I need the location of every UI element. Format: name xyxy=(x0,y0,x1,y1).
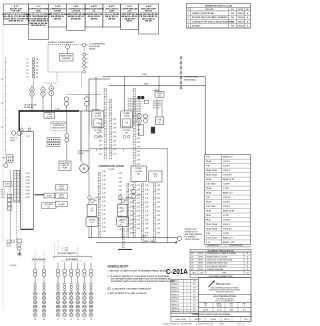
compressor frame boundary xyxy=(89,148,168,150)
svg-text:ISSUED FOR APPROVAL: ISSUED FOR APPROVAL xyxy=(192,12,215,15)
gauge pair A-GTS xyxy=(132,190,136,194)
svg-text:2-1F: 2-1F xyxy=(137,164,140,166)
wire chain xyxy=(121,228,123,248)
svg-text:AS BUILT: AS BUILT xyxy=(192,25,201,28)
svg-text:2-1F: 2-1F xyxy=(102,201,105,203)
svg-text:T-48, T-480: T-48, T-480 xyxy=(206,183,215,186)
svg-text:M1: M1 xyxy=(34,319,36,321)
svg-text:F2: F2 xyxy=(64,319,66,321)
svg-text:2-1F: 2-1F xyxy=(119,229,122,231)
header reference box A-4T xyxy=(121,4,139,30)
cabinet bushing 2 xyxy=(28,128,31,131)
svg-text:LVL: LVL xyxy=(95,200,98,202)
svg-text:AND AB WD SL: AND AB WD SL xyxy=(9,20,24,23)
feeder column F1 xyxy=(56,262,60,320)
svg-text:3: 3 xyxy=(188,21,189,23)
svg-text:SW HI: SW HI xyxy=(59,188,64,190)
drop to starter 2 xyxy=(124,76,126,111)
svg-text:AUX: AUX xyxy=(127,10,132,13)
svg-text:1/2": 1/2" xyxy=(191,263,194,265)
svg-text:T-45, T-450: T-45, T-450 xyxy=(206,205,215,208)
svg-text:BOARD: BOARD xyxy=(78,152,85,155)
damper position transmitter ZT xyxy=(66,45,70,49)
contactor filled block xyxy=(151,127,155,133)
svg-text:2-1F: 2-1F xyxy=(145,194,148,196)
svg-text:1-C/W: 1-C/W xyxy=(25,176,30,178)
svg-text:#TT: #TT xyxy=(193,284,196,286)
meter pair 1 xyxy=(137,114,141,118)
svg-text:2-1F: 2-1F xyxy=(113,123,116,125)
header reference box 1-4TD xyxy=(67,4,85,31)
svg-text:C-201A: C-201A xyxy=(166,267,188,276)
feeder column M2 xyxy=(42,262,46,320)
svg-text:LEVEL: LEVEL xyxy=(59,195,64,197)
bus riser xyxy=(18,111,20,131)
svg-text:2-1F: 2-1F xyxy=(99,128,102,130)
wire chain xyxy=(110,99,112,160)
damper drive linkage box xyxy=(60,54,74,62)
feeder T-840 xyxy=(103,75,206,77)
terminal block on left wire xyxy=(7,155,14,163)
svg-text:TB-40, TB-41: TB-40, TB-41 xyxy=(206,169,217,172)
terminal block TB-1 xyxy=(47,138,60,142)
svg-text:2-1F: 2-1F xyxy=(119,177,122,179)
svg-text:F6: F6 xyxy=(90,319,92,321)
svg-text:T-840: T-840 xyxy=(142,73,147,76)
wire chain xyxy=(142,183,144,243)
svg-text:P-101, P-102: P-101, P-102 xyxy=(206,237,217,239)
svg-text:25-1F HTR: 25-1F HTR xyxy=(153,101,162,103)
svg-text:1 OF 1: 1 OF 1 xyxy=(244,319,249,321)
svg-text:CMPRSR GRND: CMPRSR GRND xyxy=(184,77,198,79)
header reference box A-10 xyxy=(3,4,28,25)
wire chain xyxy=(141,183,143,243)
wiring chain below ladder xyxy=(16,202,18,248)
feeder column F4 xyxy=(76,262,80,320)
svg-text:2-1F: 2-1F xyxy=(137,211,140,213)
wire chain xyxy=(132,88,134,238)
svg-text:2-1F: 2-1F xyxy=(137,185,140,187)
svg-text:LOW OIL LVL & VIBR SHUTDOWN: LOW OIL LVL & VIBR SHUTDOWN xyxy=(207,259,234,261)
svg-text:1-C/W: 1-C/W xyxy=(25,197,30,199)
svg-text:ROD INSTALL: ROD INSTALL xyxy=(184,78,197,81)
svg-text:AB WD: AB WD xyxy=(108,17,115,20)
meter pair 2 xyxy=(143,114,147,118)
svg-text:BASE 1-8 TR: BASE 1-8 TR xyxy=(223,178,235,181)
terminal list sub-table xyxy=(171,279,198,313)
customer band xyxy=(198,295,251,303)
svg-text:2-1F: 2-1F xyxy=(119,212,122,214)
svg-text:2-1F: 2-1F xyxy=(99,119,102,121)
svg-text:2/25/14: 2/25/14 xyxy=(237,16,244,19)
short heavy segment xyxy=(118,248,132,250)
svg-text:1-C/W: 1-C/W xyxy=(25,193,30,195)
current transformer circles LT-120 xyxy=(11,131,15,135)
svg-text:LVL: LVL xyxy=(125,200,128,202)
svg-text:1-C/W: 1-C/W xyxy=(25,180,30,182)
svg-text:RE-MOULD # DAMP AMBIENT: RE-MOULD # DAMP AMBIENT xyxy=(48,41,74,44)
svg-text:2-1F: 2-1F xyxy=(119,186,122,188)
conduit and wire schedule table xyxy=(205,155,251,245)
svg-text:30 KVA: 30 KVA xyxy=(46,115,53,118)
svg-text:UNIT 101: UNIT 101 xyxy=(194,319,201,321)
aux drive lube oil pump box xyxy=(59,161,71,170)
svg-text:#TT: #TT xyxy=(193,311,196,313)
mcc bracket xyxy=(54,255,92,257)
svg-text:1/2": 1/2" xyxy=(191,256,194,258)
svg-text:AB WD: AB WD xyxy=(145,20,152,23)
svg-text:2-1F: 2-1F xyxy=(113,128,116,130)
svg-text:AND: AND xyxy=(36,10,41,13)
svg-text:Q#1M: Q#1M xyxy=(10,140,15,142)
svg-text:2-1F: 2-1F xyxy=(99,141,102,143)
svg-text:LEVEL: LEVEL xyxy=(59,186,64,188)
svg-text:2-1F: 2-1F xyxy=(102,218,105,220)
enclosure heater box xyxy=(155,117,163,125)
svg-text:#TT: #TT xyxy=(193,287,196,289)
svg-text:2-1F: 2-1F xyxy=(137,228,140,230)
svg-text:M2: M2 xyxy=(43,319,45,321)
tank 2 level gauges xyxy=(118,196,122,200)
svg-text:25-2F HTR: 25-2F HTR xyxy=(153,105,162,107)
contact on enclosure bottom edge xyxy=(83,70,86,73)
svg-text:2-1F: 2-1F xyxy=(119,216,122,218)
svg-text:#TT: #TT xyxy=(193,294,196,296)
svg-text:SEDAN: SEDAN xyxy=(89,47,96,50)
svg-text:2-1F: 2-1F xyxy=(102,188,105,190)
svg-text:LINKAGE: LINKAGE xyxy=(62,57,71,60)
svg-text:DUPL: DUPL xyxy=(199,253,203,255)
svg-text:DUPL: DUPL xyxy=(199,256,203,258)
svg-text:CMPTR PLCING: CMPTR PLCING xyxy=(185,229,198,231)
grid connection node xyxy=(177,236,181,240)
svg-text:7/25/14: 7/25/14 xyxy=(237,25,244,28)
wire chain xyxy=(123,228,125,248)
dashed control wiring from damper xyxy=(56,72,58,83)
cabinet internal bus xyxy=(21,133,23,228)
svg-text:2-1F: 2-1F xyxy=(99,136,102,138)
feeder column M1 xyxy=(33,262,37,320)
svg-text:2-1F: 2-1F xyxy=(102,210,105,212)
svg-text:RECORD: RECORD xyxy=(205,9,214,11)
svg-text:2-1F: 2-1F xyxy=(157,189,160,191)
svg-text:# M LI R: # M LI R xyxy=(223,197,231,199)
svg-text:#TT: #TT xyxy=(193,281,196,283)
tank 1 pump starter xyxy=(86,217,98,226)
feeder column F3 xyxy=(69,262,73,320)
svg-text:2-1F: 2-1F xyxy=(137,198,140,200)
svg-text:2-1F: 2-1F xyxy=(99,153,102,155)
svg-text:# A OPT: # A OPT xyxy=(223,201,231,204)
svg-text:2-1F: 2-1F xyxy=(145,185,148,187)
svg-text:10: 10 xyxy=(186,311,188,313)
svg-text:#TT: #TT xyxy=(193,301,196,303)
svg-text:2-1F: 2-1F xyxy=(157,215,160,217)
svg-text:OIL LEVEL: OIL LEVEL xyxy=(122,130,130,132)
tank 1 control box xyxy=(87,205,97,217)
header reference box A-4TD xyxy=(85,4,103,27)
company block outline xyxy=(198,278,251,322)
instrument bubble below TB xyxy=(4,164,8,168)
svg-text:TB-44: TB-44 xyxy=(206,201,211,204)
svg-text:2-1F: 2-1F xyxy=(119,225,122,227)
svg-text:25-1F 2#12,1#12G: 25-1F 2#12,1#12G xyxy=(128,103,142,105)
svg-text:DRAWN REVISION LOG (A): DRAWN REVISION LOG (A) xyxy=(205,4,232,7)
bus junction box T-846 xyxy=(92,109,99,113)
svg-text:# A OPT: # A OPT xyxy=(223,218,231,221)
battery ground plate box xyxy=(42,203,56,209)
svg-text:BASE 3-1 C: BASE 3-1 C xyxy=(223,236,234,239)
svg-text:1/2": 1/2" xyxy=(191,259,194,261)
svg-text:PNL: PNL xyxy=(137,173,140,175)
svg-text:2-1F: 2-1F xyxy=(113,145,116,147)
tank 1 feeder stub xyxy=(91,226,93,237)
svg-text:DATE: DATE xyxy=(238,8,244,11)
svg-text:1/2": 1/2" xyxy=(191,253,194,255)
svg-text:2-1F: 2-1F xyxy=(137,155,140,157)
field wire ticks xyxy=(5,61,7,63)
svg-text:2-1F: 2-1F xyxy=(99,149,102,151)
description header row xyxy=(205,246,251,248)
panel C-120 cabinet xyxy=(21,132,34,230)
feeder column F6 xyxy=(89,262,93,320)
svg-text:2-1F: 2-1F xyxy=(157,224,160,226)
relay contact blocks xyxy=(138,96,141,99)
svg-text:S-127B: S-127B xyxy=(124,116,131,118)
svg-text:2-1F: 2-1F xyxy=(113,149,116,151)
svg-text:2-1F: 2-1F xyxy=(145,219,148,221)
svg-text:#TT: #TT xyxy=(193,304,196,306)
svg-text:T-841: T-841 xyxy=(144,83,149,86)
wire chain xyxy=(98,172,100,238)
svg-text:AB SL: AB SL xyxy=(127,20,134,23)
svg-text:2-1F: 2-1F xyxy=(137,224,140,226)
svg-text:2-1F: 2-1F xyxy=(145,207,148,209)
header reference box 1-10 xyxy=(29,4,49,40)
instrument bubble pair TI-2 xyxy=(85,97,90,102)
svg-text:2-1F: 2-1F xyxy=(130,211,133,213)
wire chain xyxy=(153,183,155,243)
feeder T-841 xyxy=(109,85,205,87)
instrument bubble pair TI-1 xyxy=(64,97,69,102)
svg-text:TB-45: TB-45 xyxy=(206,178,211,181)
svg-text:2-1F: 2-1F xyxy=(145,198,148,200)
svg-text:1. SEE DWG #1 FEED FOR KEY TO: 1. SEE DWG #1 FEED FOR KEY TO DESWATE PA… xyxy=(108,269,168,272)
svg-text:2-1F: 2-1F xyxy=(119,182,122,184)
svg-text:S-12: S-12 xyxy=(90,222,93,224)
svg-text:2-1F: 2-1F xyxy=(137,215,140,217)
cabinet bushing 1 xyxy=(21,128,24,131)
svg-text:AB WD: AB WD xyxy=(91,17,98,20)
job number row xyxy=(198,302,251,307)
svg-text:TB-05, TB-08: TB-05, TB-08 xyxy=(206,228,217,230)
gauge pair LI xyxy=(66,111,68,134)
motor starter S-127A xyxy=(92,111,104,128)
svg-text:1: 1 xyxy=(188,13,189,15)
left riser bottom contacts xyxy=(7,240,10,242)
svg-text:TB-40, TB-41: TB-40, TB-41 xyxy=(206,174,217,177)
svg-text:DESCRIPTION: DESCRIPTION xyxy=(207,245,219,247)
svg-text:1/25/14: 1/25/14 xyxy=(237,12,244,15)
terminal ladder strip xyxy=(14,171,20,203)
wire chain xyxy=(134,88,136,238)
wire chain xyxy=(128,183,130,238)
svg-text:1-C/W: 1-C/W xyxy=(25,183,30,185)
svg-text:BASE 1-8 TR: BASE 1-8 TR xyxy=(223,210,235,213)
svg-text:2-1F: 2-1F xyxy=(145,228,148,230)
svg-text:A-673: A-673 xyxy=(5,183,10,186)
relay stack xyxy=(7,194,12,197)
svg-text:2-1F: 2-1F xyxy=(157,228,160,230)
equipment spec rows xyxy=(190,252,251,271)
svg-text:# M 45 TR: # M 45 TR xyxy=(223,174,232,177)
damper dashed enclosure xyxy=(48,44,84,72)
svg-text:2-1F: 2-1F xyxy=(157,207,160,209)
svg-text:2-1F: 2-1F xyxy=(137,129,140,131)
svg-text:CK JM: CK JM xyxy=(217,310,222,312)
wire chain xyxy=(99,172,101,238)
svg-text:25: 25 xyxy=(159,122,161,124)
svg-text:DUPL: DUPL xyxy=(199,259,203,261)
svg-text:2-1F: 2-1F xyxy=(102,197,105,199)
svg-text:T-PDB: T-PDB xyxy=(157,93,163,95)
svg-text:F1: F1 xyxy=(57,319,59,321)
svg-text:JOB No.: JOB No. xyxy=(216,303,223,305)
svg-text:EQUPMENT THAT IS DUPLICATED IS: EQUPMENT THAT IS DUPLICATED IS SHOWN IN … xyxy=(111,280,175,283)
svg-text:2-1F: 2-1F xyxy=(137,151,140,153)
svg-text:T-43: T-43 xyxy=(206,196,210,199)
svg-text:2-1F: 2-1F xyxy=(130,232,133,234)
svg-text:COMPRESSOR FRAME: COMPRESSOR FRAME xyxy=(99,165,125,168)
svg-text:MCTR BRACE: MCTR BRACE xyxy=(66,258,79,261)
wire chain xyxy=(109,99,111,160)
svg-text:2-1F: 2-1F xyxy=(157,185,160,187)
svg-text:2-1F: 2-1F xyxy=(102,214,105,216)
solenoid at enclosure top right xyxy=(83,43,86,46)
svg-text:2-1F: 2-1F xyxy=(157,211,160,213)
svg-text:3/25/14: 3/25/14 xyxy=(237,20,244,23)
svg-text:P-10: P-10 xyxy=(206,242,210,244)
svg-text:CHANGED PORT SIZES & ADDED EQU: CHANGED PORT SIZES & ADDED EQUIPMENT xyxy=(192,20,235,23)
svg-text:AB AB WD: AB AB WD xyxy=(71,17,82,20)
svg-text:( ) INDICATES CUSTOMER CONNEC: ( ) INDICATES CUSTOMER CONNECTION. xyxy=(112,287,152,290)
svg-text:1-C/W: 1-C/W xyxy=(25,173,30,175)
svg-text:4. WRT #2 REFER TO A LIMIT LO: 4. WRT #2 REFER TO A LIMIT LOCATION. xyxy=(108,292,148,295)
svg-text:TB-46: TB-46 xyxy=(206,210,211,213)
svg-text:HOLCOMB INDUSTRIES: HOLCOMB INDUSTRIES xyxy=(213,296,237,298)
svg-text:2-1F: 2-1F xyxy=(99,123,102,125)
title band xyxy=(171,312,251,317)
svg-text:TB-40: TB-40 xyxy=(206,192,211,195)
svg-text:2-1F: 2-1F xyxy=(137,125,140,127)
svg-text:T-41: T-41 xyxy=(206,156,210,159)
leftmost field wire xyxy=(5,57,7,155)
pressure gauge pair PI-1 xyxy=(30,87,34,91)
sheet left margin line xyxy=(2,25,4,311)
svg-text:2-1F: 2-1F xyxy=(102,193,105,195)
sheet row xyxy=(171,317,251,322)
svg-text:# M LI R: # M LI R xyxy=(223,170,231,172)
svg-text:SW LO: SW LO xyxy=(59,197,65,199)
svg-text:2-1F: 2-1F xyxy=(113,132,116,134)
motor starter S-127B xyxy=(121,111,133,128)
svg-text:C-110: C-110 xyxy=(108,169,115,171)
svg-text:# M LI R: # M LI R xyxy=(223,224,231,226)
svg-text:REVISED PER CUSTOMER COMMENTS: REVISED PER CUSTOMER COMMENTS xyxy=(192,17,228,19)
svg-text:2-1F: 2-1F xyxy=(102,184,105,186)
svg-text:2-1F: 2-1F xyxy=(137,147,140,149)
svg-text:# M 45 TR: # M 45 TR xyxy=(223,227,232,230)
svg-text:2-1F: 2-1F xyxy=(119,190,122,192)
svg-text:2-1F: 2-1F xyxy=(102,171,105,173)
svg-text:2-1F: 2-1F xyxy=(137,220,140,222)
svg-text:2-1F: 2-1F xyxy=(137,138,140,140)
svg-text:2-1F: 2-1F xyxy=(102,227,105,229)
svg-text:COMPRESSOR CONTROL ONE-LINE DI: COMPRESSOR CONTROL ONE-LINE DIAGRAM xyxy=(192,313,231,316)
level switch cluster xyxy=(56,185,68,191)
svg-text:OIL LEVEL: OIL LEVEL xyxy=(94,130,102,132)
instrument header wire xyxy=(67,94,102,96)
svg-text:2-1F: 2-1F xyxy=(130,219,133,221)
ground rod chevron chain xyxy=(180,56,182,88)
note 3 xyxy=(108,287,111,290)
svg-text:2-1F: 2-1F xyxy=(157,198,160,200)
tank 2 pump starter xyxy=(117,217,129,226)
svg-text:# A OPT: # A OPT xyxy=(223,165,231,168)
svg-text:2-1F: 2-1F xyxy=(145,224,148,226)
svg-text:SPECIFICATION: SPECIFICATION xyxy=(230,244,244,247)
svg-text:P-40: P-40 xyxy=(206,232,210,235)
svg-text:TB-48: TB-48 xyxy=(206,187,211,190)
svg-text:LVL: LVL xyxy=(90,208,93,210)
svg-text:1/2": 1/2" xyxy=(191,266,194,268)
svg-text:# A TR: # A TR xyxy=(223,232,229,235)
svg-text:F5: F5 xyxy=(84,319,86,321)
header reference box A-4TD xyxy=(103,4,121,27)
svg-text:2-1F: 2-1F xyxy=(119,220,122,222)
svg-text:2-1F: 2-1F xyxy=(137,134,140,136)
svg-text:2-1F: 2-1F xyxy=(119,173,122,175)
svg-text:PLT: PLT xyxy=(47,207,50,209)
svg-text:2-1F: 2-1F xyxy=(130,228,133,230)
svg-text:2-1F: 2-1F xyxy=(102,175,105,177)
svg-text:# M LI R: # M LI R xyxy=(223,206,231,208)
svg-text:2-1F: 2-1F xyxy=(137,190,140,192)
header reference box 1-4TD xyxy=(48,4,66,27)
svg-text:GECompression: GECompression xyxy=(216,282,232,285)
svg-text:T-42: T-42 xyxy=(206,165,210,168)
svg-text:2-1F: 2-1F xyxy=(157,202,160,204)
svg-text:PLOT 1=1: PLOT 1=1 xyxy=(237,324,245,326)
revision log table xyxy=(187,4,251,29)
wire chain xyxy=(126,183,128,238)
svg-text:2-1F: 2-1F xyxy=(157,194,160,196)
svg-text:2-1F: 2-1F xyxy=(102,180,105,182)
aux pump motor M xyxy=(80,164,89,173)
tank 2 feeder stub xyxy=(121,226,123,237)
svg-text:2-1F: 2-1F xyxy=(102,231,105,233)
svg-text:AB WD: AB WD xyxy=(54,17,61,20)
header reference box A-4TD xyxy=(138,4,158,34)
svg-text:REV: REV xyxy=(243,303,246,305)
svg-text:TB-07: TB-07 xyxy=(206,219,211,221)
svg-text:2-1F: 2-1F xyxy=(145,211,148,213)
svg-text:D-SW: D-SW xyxy=(47,195,52,197)
svg-text:2-1F: 2-1F xyxy=(119,203,122,205)
limit switch contacts on enclosure edge xyxy=(83,53,86,56)
svg-text:(1-C): (1-C) xyxy=(27,136,31,138)
svg-text:LTGB-E: LTGB-E xyxy=(136,168,143,170)
